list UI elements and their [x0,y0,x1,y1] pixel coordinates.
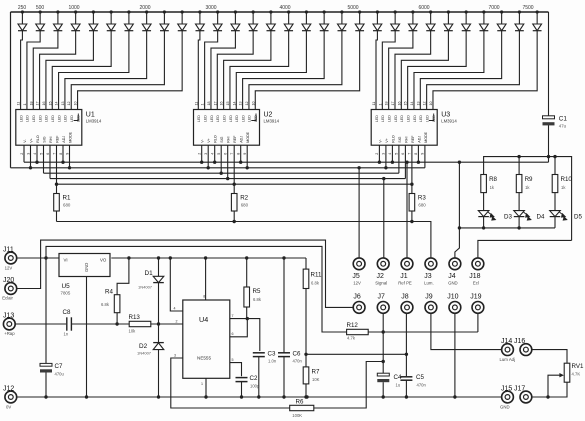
svg-text:LED: LED [413,115,417,122]
svg-text:2: 2 [375,153,379,155]
wire J16 to RV1 [532,350,567,364]
connector J16 [514,338,532,356]
wire LED2 to U1 pin [27,31,40,110]
connector J15 GND [500,385,513,409]
wire LED3 to U1 pin [33,31,58,110]
svg-text:GND: GND [500,404,510,409]
svg-text:Lum Adj: Lum Adj [500,357,516,362]
svg-text:RLO: RLO [214,135,218,143]
svg-text:LED: LED [229,115,233,122]
capacitor C6 470n [278,258,302,397]
wire bus line 2 (V+) [11,167,425,169]
connector J12 0V [3,385,17,409]
capacitor C2 100p [236,375,260,397]
svg-text:LED: LED [400,115,404,122]
svg-text:3000: 3000 [205,5,216,11]
svg-text:LED: LED [425,115,429,122]
LED bar segment D29 [515,10,524,30]
wire LED19 to U2 pin [249,31,342,110]
wire LED11 to U2 pin [198,31,200,110]
resistor R13 10k [129,314,183,334]
LED bar segment D12 [213,10,222,30]
svg-text:LED: LED [38,115,42,122]
LED bar segment D20 [355,10,364,30]
svg-text:9: 9 [421,153,425,155]
svg-text:15: 15 [404,102,408,106]
svg-text:RHI: RHI [49,136,53,142]
wire U1 ref pin through L5 to R1 [56,145,58,193]
svg-text:7000: 7000 [488,5,499,11]
svg-text:12V: 12V [5,265,13,270]
svg-text:5: 5 [395,153,399,155]
LED bar segment D25 [444,10,453,30]
wire LED22 to U3 pin [382,31,395,110]
svg-text:LED: LED [210,115,214,122]
wire U2 pin drop [207,145,209,168]
wire U4 pins 6,7 junction [230,318,248,320]
voltage regulator U5 7805 [59,254,110,296]
svg-text:R5: R5 [253,288,261,295]
wire +V line from U5 VO [111,257,306,259]
svg-text:1N4007: 1N4007 [138,285,153,290]
svg-text:MODE: MODE [69,131,73,142]
wire J20 to J6 [17,240,354,307]
LED bar segment D1 [18,10,27,30]
svg-text:16: 16 [397,102,401,106]
wire bus line 4 [50,178,405,180]
wire C8 to R13 / pin2 net [71,323,129,325]
LED bar segment D27 [480,10,489,30]
wire LED supply rail [484,157,572,241]
svg-text:18: 18 [29,102,33,106]
svg-text:ADJ: ADJ [62,136,66,143]
wire U1 pin drop [23,145,25,162]
wire pin7 node to C3 [247,319,259,351]
wire U3 pin drop [378,145,380,162]
svg-text:J19: J19 [470,293,481,300]
wire J2 to signal line [383,179,385,258]
svg-text:R8: R8 [489,176,497,183]
svg-text:C3: C3 [268,351,276,358]
capacitor C3 1.0n [253,351,277,398]
svg-text:C5: C5 [416,374,424,381]
svg-text:LED: LED [406,115,410,122]
connector J6 [353,293,365,313]
connector J11 12V input [3,246,17,270]
wire J18 to rail [478,240,572,257]
svg-text:LED: LED [32,115,36,122]
wire LED5 to U1 pin [46,31,93,110]
svg-text:SIG: SIG [398,136,402,142]
wire U3 pin drop [417,145,419,162]
connector J19 [470,293,484,313]
resistor R5 6.8k [244,258,262,319]
svg-text:REF: REF [411,135,415,143]
op-amp IC U2 LM3914 [194,101,280,154]
wire U1 pin drop [30,145,32,168]
svg-text:LED: LED [203,115,207,122]
wire J10 to 0V bus [454,314,456,397]
svg-text:7: 7 [408,153,412,155]
svg-text:100K: 100K [292,413,302,418]
svg-text:U4: U4 [199,315,208,324]
wire U2 pin drop [201,145,203,162]
svg-text:16: 16 [220,102,224,106]
svg-text:J3: J3 [424,273,432,280]
svg-text:J8: J8 [401,293,409,300]
svg-text:D3: D3 [504,213,512,220]
svg-text:10K: 10K [312,377,320,382]
wire D3 D4 D5 cathode rail [459,227,555,229]
svg-text:LM3914: LM3914 [86,118,102,123]
svg-text:13: 13 [416,102,420,106]
svg-text:3: 3 [382,153,386,155]
resistor R6 100K [290,398,314,418]
svg-text:R7: R7 [312,369,320,376]
svg-text:3: 3 [26,153,30,155]
svg-text:NE555: NE555 [197,356,211,361]
connector J2 [375,258,389,286]
svg-text:LM3914: LM3914 [441,118,457,123]
svg-text:4.7k: 4.7k [347,336,356,341]
wire J8 drop through C5 [405,314,407,376]
svg-text:VI: VI [64,258,68,263]
svg-text:470n: 470n [293,359,303,364]
wire J7 drop through C4 [382,314,384,373]
wire LED6 to U1 pin [52,31,111,110]
svg-text:4: 4 [174,307,176,311]
wire U1 pin drop [49,145,51,178]
LED bar segment D2 [36,10,45,30]
LED bar segment D17 [302,10,311,30]
capacitor C4 1u [377,373,402,397]
svg-text:Ecl: Ecl [473,280,479,285]
wire J9 to J14 [431,314,502,350]
svg-text:LM3914: LM3914 [264,118,280,123]
LED bar segment D4 [71,10,80,30]
svg-text:V+: V+ [207,138,211,143]
timer U4 NE555 [183,300,230,378]
wire J4 to gnd line [455,162,460,258]
LED bar segment D18 [320,10,329,30]
capacitor C1 47u [543,115,568,128]
wire LED7 to U1 pin [59,31,129,110]
svg-text:LED: LED [19,115,23,122]
svg-text:Signal: Signal [375,280,387,285]
svg-text:J15: J15 [501,385,512,392]
svg-text:13: 13 [61,102,65,106]
wire LED4 to U1 pin [40,31,76,110]
connector J20 Eclair [2,277,17,301]
svg-text:10: 10 [251,101,255,105]
LED bar segment D11 [196,10,205,30]
wire LED23 to U3 pin [389,31,413,110]
svg-text:LED: LED [387,115,391,122]
svg-text:VO: VO [100,258,107,263]
connector J3 [424,258,437,286]
LED D3 [478,211,512,228]
LED bar segment D28 [497,10,506,30]
svg-text:LED: LED [235,115,239,122]
wire U2 pin drop [220,145,222,173]
svg-text:R4: R4 [105,289,113,296]
svg-text:LED: LED [216,115,220,122]
svg-text:J20: J20 [3,277,14,284]
svg-text:LED: LED [51,115,55,122]
svg-text:V+: V+ [385,138,389,143]
svg-text:+Rap: +Rap [4,331,15,336]
wire U3 ref pin through L5 to R3 [411,145,413,193]
LED D5 [550,211,583,228]
svg-text:D5: D5 [574,213,582,220]
wire bus right drop to C1 [548,12,550,116]
svg-text:LED: LED [57,115,61,122]
connector J7 [377,293,389,313]
resistor R7 10K [303,354,320,397]
wire U4 pin 4 to +V [170,258,183,311]
svg-text:1.0n: 1.0n [268,359,277,364]
resistor R2 680 [231,194,248,222]
svg-text:5: 5 [39,153,43,155]
svg-text:470n: 470n [417,383,427,388]
svg-text:REF: REF [56,135,60,143]
svg-text:GND: GND [84,263,89,272]
svg-text:RLO: RLO [391,135,395,143]
svg-text:8: 8 [414,153,418,155]
svg-text:18: 18 [207,102,211,106]
svg-text:7500: 7500 [522,5,533,11]
wire U2 pin drop [214,145,216,162]
resistor R10 1k [552,157,572,211]
wire R12 to J7/J19 line [368,331,478,333]
op-amp IC U3 LM3914 [371,102,457,155]
wire LED8 to U1 pin [65,31,147,110]
svg-text:11: 11 [372,102,376,106]
wire LED24 to U3 pin [395,31,431,110]
resistor R11 6.8k [303,258,322,354]
svg-text:R9: R9 [525,176,533,183]
wire bus line 1 (gnd) [24,161,549,163]
svg-text:10: 10 [74,102,78,106]
svg-text:J11: J11 [3,246,14,253]
wire 12V branch to R12 [46,246,347,332]
wire U1 pin drop [62,145,64,162]
wire LED14 to U2 pin [217,31,253,110]
svg-text:12V: 12V [353,280,361,285]
svg-text:3: 3 [174,354,176,358]
svg-text:RHI: RHI [227,136,231,142]
svg-text:LED: LED [248,115,252,122]
LED bar segment D13 [231,10,240,30]
connector J5 [352,258,365,286]
svg-text:0V: 0V [6,404,11,409]
wire LED20 to U2 pin [255,31,359,110]
svg-text:J4: J4 [448,273,456,280]
svg-text:RHI: RHI [404,136,408,142]
svg-text:J13: J13 [3,312,14,319]
svg-text:1: 1 [201,104,205,106]
LED bar segment D24 [426,10,435,30]
svg-text:MODE: MODE [424,131,428,142]
LED bar segment D19 [338,10,347,30]
wire J13 to C8 [15,323,66,325]
svg-text:1: 1 [201,382,203,386]
svg-text:R6: R6 [296,398,304,405]
svg-text:3: 3 [204,153,208,155]
svg-text:LED: LED [241,115,245,122]
wire LED18 to U2 pin [243,31,325,110]
connector J18 [469,258,484,286]
LED bar segment D30 [533,10,542,30]
diode D2 1N4007 [137,324,164,397]
svg-text:9: 9 [243,153,247,155]
wire LED16 to U2 pin [230,31,289,110]
svg-text:10: 10 [429,102,433,106]
svg-text:7: 7 [232,314,234,318]
LED bar segment D21 [373,10,382,30]
LED bar segment D9 [160,10,169,30]
svg-text:7: 7 [230,153,234,155]
svg-text:J6: J6 [353,293,361,300]
svg-text:9: 9 [65,153,69,155]
wire U1 pin drop [36,145,38,162]
svg-text:V+: V+ [30,138,34,143]
svg-text:J2: J2 [376,273,384,280]
connector J14 Lum Adj [500,338,516,362]
wire U2 pin drop [246,145,248,168]
wire LED1 to U1 pin [21,31,23,110]
svg-text:4.7K: 4.7K [572,372,581,377]
wire U2 pin drop [240,145,242,162]
svg-text:14: 14 [410,102,414,106]
LED bar segment D3 [54,10,63,30]
svg-text:6: 6 [401,153,405,155]
svg-text:6.8k: 6.8k [311,281,320,286]
svg-text:4: 4 [388,153,392,155]
wire 0V bus [17,396,502,398]
svg-text:LED: LED [394,115,398,122]
LED bar segment D22 [391,10,400,30]
svg-text:J7: J7 [377,293,385,300]
svg-text:R12: R12 [347,322,359,329]
svg-text:14: 14 [55,102,59,106]
svg-text:14: 14 [232,102,236,106]
svg-text:J10: J10 [447,293,458,300]
LED bar segment D5 [89,10,98,30]
svg-text:15: 15 [226,102,230,106]
svg-text:6.8k: 6.8k [253,297,262,302]
svg-text:J5: J5 [352,273,360,280]
svg-text:8: 8 [203,295,205,299]
svg-text:U5: U5 [62,283,71,290]
svg-text:LED: LED [70,115,74,122]
wire LED13 to U2 pin [211,31,235,110]
LED bar segment D6 [107,10,116,30]
connector J8 [401,293,413,313]
svg-text:500: 500 [36,5,45,11]
LED bar segment D10 [178,10,187,30]
LED bar segment D7 [125,10,134,30]
wire LED anode bus (top) [11,11,549,13]
svg-text:LED: LED [381,115,385,122]
capacitor C8 1n [63,309,72,337]
wire U4 pin 5 to C2 [230,363,242,377]
connector J13 +Rap [3,312,15,336]
wire U2 pin drop [227,145,229,178]
wire C1 to rail and gnd line [548,125,550,162]
wire bus line 4 right riser [404,145,406,178]
LED bar segment D16 [284,10,293,30]
svg-text:2: 2 [198,153,202,155]
svg-text:4: 4 [211,153,215,155]
svg-text:SIG: SIG [220,136,224,142]
svg-text:MODE: MODE [246,131,250,142]
svg-text:1u: 1u [396,383,401,388]
svg-text:J1: J1 [400,273,408,280]
svg-text:ADJ: ADJ [417,136,421,143]
diode D1 1N4007 [138,258,164,324]
svg-text:10k: 10k [129,329,137,334]
wire LED27 to U3 pin [414,31,484,110]
svg-text:18: 18 [385,102,389,106]
svg-text:J9: J9 [425,293,433,300]
wire U5 GND to 0V bus [86,277,88,398]
svg-text:4000: 4000 [279,5,290,11]
svg-text:2: 2 [20,153,24,155]
connector J17 [514,385,532,403]
wire LED29 to U3 pin [427,31,520,110]
svg-text:Eclair: Eclair [2,296,13,301]
LED bar segment D23 [409,10,418,30]
wire U4 pin 1 to 0V [205,378,207,397]
wire LED9 to U1 pin [71,31,164,110]
svg-text:11: 11 [17,102,21,106]
svg-text:8: 8 [237,153,241,155]
connector J4 [448,258,461,286]
svg-text:1: 1 [378,104,382,106]
wire LED10 to U1 pin [78,31,183,110]
LED bar segment D26 [462,10,471,30]
wire bus line 2 right riser [424,145,426,168]
svg-text:8: 8 [59,153,63,155]
LED bar segment D14 [249,10,258,30]
svg-text:D4: D4 [537,213,545,220]
LED bar segment D15 [267,10,276,30]
resistor R9 1k [516,157,533,211]
capacitor C7 470u [40,258,64,397]
connector J9 [425,293,437,313]
svg-text:680: 680 [63,203,71,208]
wire J5 to V+ line [358,168,360,258]
svg-text:J17: J17 [514,385,525,392]
wire U1 pin drop [43,145,45,173]
svg-text:J18: J18 [469,273,480,280]
wire R6 feedback link [314,362,383,409]
wire R1 R2 R3 bottom line to J3 [57,222,431,258]
wire LED12 to U2 pin [205,31,218,110]
wire LED30 to U3 pin [433,31,537,110]
svg-text:2000: 2000 [139,5,150,11]
svg-text:1n: 1n [64,332,69,337]
svg-text:Ref PE: Ref PE [398,280,412,285]
svg-text:SIG: SIG [43,136,47,142]
svg-text:5000: 5000 [347,5,358,11]
resistor R1 680 [54,194,71,222]
svg-text:17: 17 [36,102,40,106]
svg-text:680: 680 [241,203,249,208]
wire U1 pin drop [69,145,71,168]
svg-text:5: 5 [232,358,234,362]
